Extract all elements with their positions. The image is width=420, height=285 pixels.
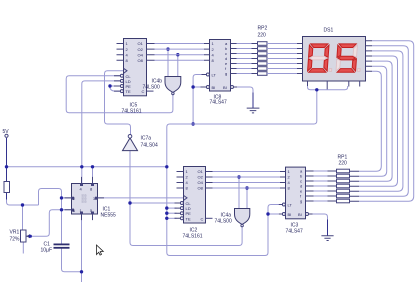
svg-text:C: C	[201, 216, 204, 221]
display digit 0 segments	[308, 44, 334, 72]
wire: trigger node to 555 pin2	[62, 197, 72, 199]
node: IC5 PE junction	[108, 84, 111, 87]
wire: RP2 stubs	[252, 44, 274, 74]
capacitor C1	[41, 242, 70, 254]
svg-text:O1: O1	[138, 41, 144, 46]
svg-text:O2: O2	[198, 175, 204, 180]
potentiometer VR1	[10, 230, 32, 243]
wire: RP1 right stubs	[350, 171, 360, 201]
svg-text:LT: LT	[212, 73, 217, 78]
wire: resistor bottom lead down then right to x38 up to 555 pin2	[6, 193, 8, 200]
svg-text:TE: TE	[126, 89, 131, 94]
wire: resistor bottom to trigger loop	[7, 189, 62, 206]
node: IC4b input O4	[176, 53, 179, 56]
wire: 555 pin4 to rail	[81, 167, 83, 184]
ground (bottom, IC3 RBO)	[313, 214, 334, 241]
display DS1	[297, 28, 372, 90]
wire: IC5 CL from IC4b output loop	[66, 76, 173, 113]
node: IC4b input O2	[166, 47, 169, 50]
wire: 555 pin1 down to bottom	[81, 220, 83, 282]
svg-text:220: 220	[258, 33, 267, 39]
node: CL junction	[128, 201, 131, 204]
wire: V-mid vertical, bottom run, LT riser, and mid bus to display commons	[167, 90, 317, 256]
svg-text:O1: O1	[198, 169, 204, 174]
node: IC2 TE	[165, 217, 168, 220]
wire: inverter input down to CL node and NAND return	[130, 151, 242, 246]
wire: IC5 LD tie down to rail	[82, 81, 124, 167]
ground (top, IC8 RBO)	[237, 87, 259, 113]
node: IC2 LD	[165, 206, 168, 209]
nand IC4a 74LS00	[215, 177, 250, 227]
wire: IC8 BI/LT riser	[193, 75, 201, 125]
svg-text:74LS47: 74LS47	[286, 229, 303, 235]
decoder IC8 74LS47	[201, 40, 238, 106]
wire: IC8 outputs to RP2	[237, 44, 258, 74]
resistor pack RP2 220	[258, 26, 268, 76]
node: IC2 PE	[165, 212, 168, 215]
svg-text:RP2: RP2	[258, 26, 268, 32]
mouse cursor	[97, 245, 104, 255]
node: rail taps 555 pin8	[91, 165, 94, 168]
wire: RP2 to display left pins	[267, 44, 303, 74]
svg-text:BI: BI	[212, 85, 216, 90]
node: R bottom to VR1	[21, 203, 24, 206]
decoder IC3 74LS47	[279, 167, 314, 234]
svg-text:72%: 72%	[10, 237, 21, 243]
wire: 5V vertical down to rail	[6, 138, 8, 167]
svg-text:74LS161: 74LS161	[122, 109, 142, 115]
resistor pack RP1 220	[337, 155, 350, 203]
wire: IC2 PE tie stub	[167, 212, 177, 214]
wire: C1 bottom down then right to 555 pin1 line	[62, 249, 82, 272]
wire: IC3 BI stub to vertical	[268, 213, 279, 215]
resistor R1	[4, 182, 10, 193]
node: IC4a input O2	[237, 175, 240, 178]
svg-text:O4: O4	[138, 52, 144, 57]
svg-text:74LS00: 74LS00	[215, 219, 232, 225]
wire: CL node to IC2 CL pin	[130, 202, 177, 204]
wire: IC2 TE tie stub	[167, 217, 177, 219]
wire: display right pins to vertical drops	[359, 41, 414, 202]
wire: 555 pin3 output to IC2 clock	[98, 197, 184, 199]
svg-text:74LS161: 74LS161	[183, 234, 203, 240]
svg-text:74LS04: 74LS04	[141, 143, 158, 149]
svg-text:BI: BI	[223, 85, 227, 90]
node: rail taps 555 pin4	[80, 165, 83, 168]
svg-text:O2: O2	[138, 47, 144, 52]
svg-text:BI: BI	[288, 212, 292, 217]
node: display common junction	[315, 88, 318, 91]
inverter IC7a 74LS04	[123, 135, 158, 151]
display digit 5 segments	[336, 44, 362, 72]
node: IC8 BI tap	[191, 85, 194, 88]
node: BI riser on mid bus	[191, 122, 194, 125]
svg-text:g: g	[225, 71, 227, 76]
node: trigger node	[60, 196, 63, 199]
wire: IC5 PE-TE tie	[110, 86, 124, 91]
svg-text:BI: BI	[298, 212, 302, 217]
node: IC4a input O8	[245, 186, 248, 189]
wire: display common pins bus	[308, 86, 348, 90]
wire: VR1 bottom stub	[22, 242, 24, 254]
wire: VR1 wiper right then up to pin6 row	[30, 210, 72, 236]
svg-text:TE: TE	[186, 216, 191, 221]
power 5V terminal	[3, 129, 10, 137]
wire: 555 pin8 to rail	[92, 167, 94, 184]
counter IC2 74LS161	[175, 167, 213, 240]
svg-text:O8: O8	[138, 58, 144, 63]
svg-text:O4: O4	[198, 180, 204, 185]
wire: IC3 outputs to RP1	[314, 171, 337, 201]
wire: node vertical pin2 to pin6 to C1	[61, 198, 63, 244]
svg-text:220: 220	[339, 161, 348, 167]
svg-text:DS1: DS1	[324, 28, 334, 34]
timer IC1 NE555	[65, 177, 117, 220]
node: threshold node	[60, 208, 63, 211]
wire: IC5 clock from inverter loop	[105, 71, 131, 135]
wire: IC2 outputs to IC3 inputs	[213, 172, 281, 189]
wire: junction to VR1 top	[22, 205, 24, 230]
svg-text:555: 555	[82, 200, 87, 204]
node: rail to V-mid	[165, 165, 168, 168]
svg-text:NE555: NE555	[101, 213, 117, 219]
counter IC5 74LS161	[114, 39, 155, 115]
svg-text:IC7a: IC7a	[141, 136, 152, 142]
svg-text:O8: O8	[198, 186, 204, 191]
wire: RP1 left stubs	[328, 171, 337, 201]
svg-text:74LS00: 74LS00	[143, 85, 160, 91]
wire: resistor top lead	[6, 167, 8, 182]
svg-text:VR1: VR1	[10, 230, 20, 236]
svg-text:10µF: 10µF	[41, 248, 53, 254]
node: IC3 BI tap	[266, 212, 269, 215]
wire: IC2 LD tie stub	[167, 207, 177, 209]
wire: 5V rail y=166.3 from 5V to V-mid	[7, 166, 167, 168]
node: 5V rail left	[5, 165, 8, 168]
nand IC4b 74LS00	[143, 49, 181, 95]
svg-text:74LS47: 74LS47	[210, 100, 227, 106]
svg-text:g: g	[300, 199, 302, 204]
svg-text:LT: LT	[288, 203, 293, 208]
wire: IC5 outputs to IC8 inputs	[155, 44, 205, 61]
node: ground node C1/pin1	[80, 270, 83, 273]
